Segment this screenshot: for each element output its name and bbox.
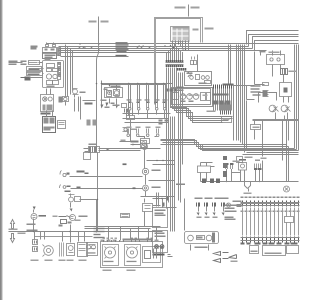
- AC sub-box3 internals: [145, 249, 157, 259]
- gauge enclosure upper: [185, 72, 212, 86]
- solenoid S2: [142, 168, 148, 174]
- wires: feeds into cluster: [153, 193, 169, 209]
- wire: vertical x97.5 to ground bus: [97, 153, 99, 232]
- text under arrows: [197, 217, 218, 219]
- junction dots on runs: [156, 160, 163, 161]
- ground bus label left: [9, 229, 26, 235]
- connector pair small left mid 1: [60, 171, 70, 177]
- battery relay box with terminals: [267, 55, 285, 65]
- labels: bus line tags mid: [116, 42, 129, 56]
- wire: left feed into bank: [237, 205, 242, 207]
- fusible link label: [21, 61, 27, 66]
- comp2 relay box: [239, 163, 247, 171]
- wires: horn drops: [66, 45, 75, 106]
- box2 text: [155, 233, 166, 238]
- text pair mid: [176, 184, 185, 186]
- hatched connector on wire: [125, 109, 128, 113]
- comp3 label above: [255, 160, 260, 161]
- starter assembly big box: [43, 61, 64, 88]
- label right of hatched block: [289, 71, 297, 73]
- labels top of cluster rows: [195, 198, 229, 200]
- dark connector small: [25, 77, 31, 81]
- wire: main top bus line 2: [59, 46, 249, 48]
- small comp with circles mid: [123, 128, 128, 132]
- bank row2 ticks: [241, 238, 300, 241]
- wires: drops under pin bar: [214, 89, 232, 111]
- wires: drops to y181 bus: [227, 161, 263, 182]
- wires: right edge verticals from top bus to bundle: [295, 45, 299, 151]
- small comp pair near pins row: [191, 57, 197, 65]
- dark marks connector 2: [65, 186, 81, 193]
- alternator label box: [43, 53, 57, 59]
- controller box 1: [153, 208, 168, 228]
- pin bar cap: [223, 84, 234, 86]
- relay frame box: [280, 83, 292, 97]
- component top right of heater area: [143, 204, 153, 212]
- solenoid S3: [143, 185, 149, 191]
- wires: cluster verticals: [168, 199, 209, 257]
- vertical line right of gauges: [183, 55, 234, 141]
- wire from connector 2: [71, 188, 143, 190]
- alternator inner marks: [45, 49, 55, 51]
- wire: right bus corner 3: [253, 37, 299, 49]
- dark bits of cluster: [59, 222, 72, 227]
- wire: cab enclosure bottom rail to right edge: [203, 43, 299, 45]
- label right of second flasher: [79, 216, 88, 218]
- relay outer box: [105, 88, 123, 98]
- connector pin row B lower right: [177, 68, 187, 71]
- label among arrows: [111, 103, 115, 105]
- label right: [131, 129, 137, 131]
- wire: feed to battery relay: [251, 51, 281, 56]
- wire: main top bus line 3: [59, 48, 253, 50]
- label right of up arrow: [27, 224, 36, 226]
- box1 text rows: [155, 210, 166, 217]
- junction dot backup alarm: [97, 199, 98, 200]
- arrow on feed: [133, 144, 136, 146]
- wires: misc right column verticals: [243, 101, 299, 171]
- wire: run from bulkhead right: [84, 149, 161, 152]
- hatched strip connector mid: [60, 243, 64, 257]
- left box text: [87, 252, 96, 253]
- wire: right bus corner 4: [255, 41, 299, 51]
- splice marks on long runs: [123, 163, 136, 189]
- S2 label right: [152, 170, 161, 172]
- backup alarm arrow: [70, 209, 73, 212]
- model text dark: [153, 254, 165, 256]
- wires: below rail right: [255, 121, 289, 165]
- extra labels right column: [233, 157, 267, 163]
- wire: frame/cab divider vertical: [97, 17, 99, 147]
- controller box 2: [153, 231, 168, 253]
- left small box next to controller: [87, 243, 98, 256]
- label in lamp check box: [253, 127, 260, 129]
- terminal ladder right of alternator: [58, 48, 61, 56]
- small circle comp right-mid: [284, 186, 290, 192]
- switch row 1 caps: [129, 102, 166, 104]
- junction blobs on y181 bus: [202, 179, 220, 184]
- circled symbol right: [227, 203, 231, 207]
- switch row 1: [128, 103, 166, 111]
- heater box: [78, 243, 88, 257]
- wire: S1 links: [139, 137, 145, 169]
- wire: main top bus line 4: [59, 50, 255, 52]
- group boxes under row 2: [250, 246, 299, 256]
- group box text: [251, 251, 282, 255]
- junction connectors right of row: [159, 120, 169, 125]
- wiper motor box: [67, 244, 75, 256]
- hatched strip right of wiper box: [213, 233, 215, 243]
- wiper assembly rounded box: [185, 232, 219, 244]
- wires: bundle lines down to lower bus: [287, 145, 289, 182]
- comp3 pin pairs: [255, 164, 261, 169]
- small white box on corner lines: [198, 166, 211, 173]
- label under chevron: [231, 261, 238, 263]
- fuse block grid cells: [173, 29, 189, 41]
- fuses stack dark: [263, 91, 268, 97]
- wires: left links: [9, 63, 44, 78]
- connector pin bar right of gauges: [214, 85, 232, 89]
- extra junction dots on bus under grid: [170, 43, 186, 50]
- wire: S2 links: [146, 161, 175, 185]
- connector strip below ladder: [58, 63, 61, 80]
- junction dots on y181 bus: [226, 181, 260, 182]
- label left of connector bar: [207, 111, 216, 113]
- lamp circle 2: [281, 105, 290, 112]
- label under starter switch: [41, 113, 51, 115]
- label under bus left: [27, 230, 38, 232]
- relay element right (coil): [114, 90, 120, 97]
- dark blob pair near divider: [87, 120, 97, 126]
- fuse block grid J1: [171, 27, 199, 51]
- enclosure bottom rail right: [253, 120, 299, 121]
- terminal bits left: [263, 83, 269, 97]
- wires to lower mid cluster: [127, 101, 133, 116]
- A/C controller big box: [101, 242, 163, 268]
- AC fan labels: [104, 261, 137, 262]
- labels near cluster: [53, 216, 81, 222]
- starter switch block: [41, 95, 54, 112]
- AC pin labels tiny: [103, 238, 154, 239]
- fuse box A: [27, 67, 42, 71]
- battery block: [43, 117, 56, 133]
- splice row 1: [213, 94, 229, 96]
- wires: drops from ground bus: [35, 225, 85, 243]
- S3 label right: [152, 187, 161, 189]
- hatched strip x223-227: [223, 156, 227, 177]
- wires: group stems: [199, 207, 224, 212]
- key switch mid: [141, 141, 147, 148]
- dark connector bits top: [163, 197, 169, 207]
- label left edge: [9, 61, 18, 66]
- relay label above: [104, 86, 121, 91]
- wire: main top bus line 5: [61, 52, 171, 54]
- wires: fuse block drops to bus: [173, 41, 189, 51]
- wires: flasher stem: [33, 210, 35, 232]
- wires: stubs pins to bus: [167, 44, 183, 60]
- upper gauge text: [187, 73, 207, 85]
- enclosure: cab outline: [155, 18, 203, 105]
- wire label stack left of AC box: [94, 228, 105, 238]
- battery relay label: [269, 52, 280, 54]
- bank top rail: [241, 203, 299, 205]
- comp1 bodies: [226, 165, 233, 169]
- label +12V on enclosure rail: [205, 28, 214, 30]
- dark labels under row 2: [241, 243, 298, 245]
- battery cells: [44, 118, 55, 131]
- corner lines left of y181 bus: [201, 163, 215, 182]
- fuse block outer box: [171, 27, 190, 42]
- double arrow symbols right: [214, 252, 229, 263]
- ground arrows row: [197, 213, 225, 216]
- gauge enclosure lower: [171, 88, 213, 107]
- solenoid S1: [141, 139, 150, 150]
- splice marks left of lower gauge box: [167, 89, 177, 92]
- labels: frame / cab text at divider: [89, 21, 109, 23]
- fuse block label: [193, 29, 199, 31]
- fan motor 1: [105, 247, 116, 259]
- relay element left: [107, 91, 112, 97]
- comp1 pin pairs with dark caps: [225, 163, 234, 165]
- small box at x86 y155: [84, 153, 91, 160]
- wire: right bus corner 1: [247, 31, 299, 45]
- dark marks connector 1: [67, 171, 89, 175]
- fuse box A text: [29, 69, 40, 71]
- arrow on run: [107, 149, 110, 151]
- wires: relay top feeds: [102, 81, 173, 106]
- second flasher circle: [70, 215, 76, 221]
- resistor block above: [121, 214, 130, 218]
- wire: backup alarm drop: [71, 200, 97, 232]
- dark core inside: [284, 88, 288, 93]
- wires: bank row1 to row2: [243, 208, 299, 236]
- turn flasher circle: [31, 214, 37, 220]
- slashes on bus left portion: [79, 47, 93, 49]
- horizontal link y85 right: [233, 86, 255, 100]
- down arrow hollow: [11, 234, 15, 243]
- up arrow hollow: [11, 220, 15, 229]
- page left scan edge: [0, 0, 3, 300]
- labels under relays: [101, 100, 120, 109]
- junction dots cluster top: [156, 198, 162, 199]
- starter switch hatch bottom: [43, 105, 53, 111]
- connector pin row A ticks: [166, 63, 184, 65]
- fusible link small box: [29, 61, 40, 65]
- ground run label: [85, 103, 93, 105]
- text label rows left of bank: [225, 205, 237, 221]
- gauge cluster lower contents: [173, 93, 211, 101]
- pin hatch groups: [197, 203, 225, 207]
- box on wires right: [285, 217, 294, 223]
- fuse box B: [27, 72, 43, 76]
- sub labels under row 1: [241, 211, 300, 213]
- label right of flasher: [39, 215, 47, 217]
- comp2 label above dark: [239, 159, 246, 161]
- labels above bank row 1: [241, 197, 300, 199]
- connector arcs right: [188, 71, 193, 77]
- sub box inside controller: [103, 245, 161, 266]
- switch row 2 labels: [127, 127, 161, 129]
- wires: long horizontal bundle with staircase: [155, 137, 299, 151]
- label under Y merge: [244, 193, 252, 195]
- connector bank row 1 pins: [243, 201, 299, 207]
- pin labels above controller box: [101, 240, 159, 242]
- comp3 dark bases: [254, 168, 262, 170]
- label on wire: [121, 140, 126, 142]
- small switch cluster above ground bus: [59, 216, 71, 224]
- small box mid right: [237, 157, 243, 163]
- labels under bottom-left row: [31, 260, 87, 262]
- label in box: [223, 119, 230, 121]
- gauge cluster upper contents: [190, 75, 211, 84]
- left box contents: [87, 245, 96, 249]
- alternator (E) castle box: [43, 45, 57, 54]
- fan motor 2: [127, 247, 138, 259]
- wire: main top bus line 1: [47, 43, 247, 45]
- connector pair small left mid 2: [60, 185, 66, 189]
- A/C control title: [123, 239, 153, 241]
- S1 label left: [131, 141, 139, 143]
- side box right of battery: [58, 121, 66, 129]
- lamp circle 1: [269, 105, 278, 112]
- wires: S3 links: [141, 181, 175, 197]
- left chevron arrow: [229, 255, 237, 259]
- wires: to that comp: [145, 199, 161, 227]
- wires: relay area interconnect: [255, 52, 289, 103]
- junction dots: [96, 83, 165, 86]
- junction dots on ground bus: [33, 231, 97, 232]
- wire from connector 1: [70, 176, 143, 178]
- label right edge: [233, 201, 242, 207]
- fuse box B text: [28, 74, 40, 76]
- flasher feed arrow dark: [33, 207, 36, 210]
- AC box top pin ticks: [104, 240, 152, 242]
- horn cluster below starter: [63, 89, 79, 102]
- dark connector tail: [21, 77, 25, 79]
- switch row 1 labels: [127, 99, 168, 100]
- wire: right bus corner 2: [249, 35, 299, 47]
- wire: bus line 6 lower: [61, 56, 129, 58]
- ground bus horizontal: [9, 231, 163, 233]
- J/C connector stack: [33, 240, 38, 252]
- box under connector bar: [222, 117, 232, 123]
- ground run line: [83, 100, 96, 102]
- wires: pin drops long verticals: [167, 68, 233, 203]
- backup alarm circle+box: [69, 194, 81, 202]
- bulkhead connector block: [89, 147, 100, 153]
- box mid lower: [127, 116, 135, 120]
- bulkhead label above: [89, 144, 97, 146]
- fuse stack labels left: [251, 85, 261, 95]
- wiper box inner marks: [197, 237, 203, 239]
- alternator label text: [31, 46, 56, 59]
- wires: starter area verticals: [47, 89, 81, 120]
- gauge area small labels: [181, 95, 208, 97]
- starter text smudges: [45, 59, 55, 88]
- fuse block header row: [173, 27, 190, 29]
- wires: lamps to rail: [276, 113, 288, 120]
- horizontal bus y181: [201, 181, 299, 183]
- battery relay label small: [260, 51, 266, 52]
- junction dots on bus: [79, 43, 183, 50]
- connector bar mid with box: [221, 111, 231, 115]
- small box right-low of relays: [122, 104, 127, 108]
- bank row1 pin ticks: [241, 203, 300, 206]
- wires: switch row connections: [123, 84, 171, 123]
- labels in gauge area: [175, 90, 194, 103]
- dark box lower-left of horn: [59, 97, 63, 103]
- hatched relay block: [281, 69, 288, 75]
- wires: mid verticals to bottom cluster: [171, 117, 175, 199]
- labels beside top stub: [175, 7, 200, 9]
- wire: right vertical bus: [236, 45, 238, 141]
- labels under controller: [103, 270, 136, 272]
- horn label: [80, 92, 86, 94]
- connector pin row A (cab bottom): [166, 60, 184, 67]
- dark text between gauge boxes: [177, 87, 184, 89]
- splice row 2: [213, 101, 231, 105]
- box2 plug circles: [155, 245, 164, 249]
- wires: bar stubs up: [221, 103, 231, 111]
- washer motor circle: [43, 245, 54, 257]
- label under wiper box: [195, 247, 208, 249]
- second rail below ground bus: [35, 236, 93, 238]
- switch row 2: [127, 129, 159, 137]
- Y merge under bus: [245, 182, 251, 192]
- top center stub line with labels: [188, 5, 190, 17]
- lamp check box: [251, 125, 261, 130]
- wire down from mid box: [120, 120, 131, 142]
- connector bank row 2 pins: [243, 237, 299, 243]
- wires: upper runs: [85, 227, 161, 241]
- wire: key switch feed arrow: [131, 145, 144, 150]
- labels: small slashes on bus: [137, 46, 157, 49]
- terminal arrows under relays: [101, 103, 119, 109]
